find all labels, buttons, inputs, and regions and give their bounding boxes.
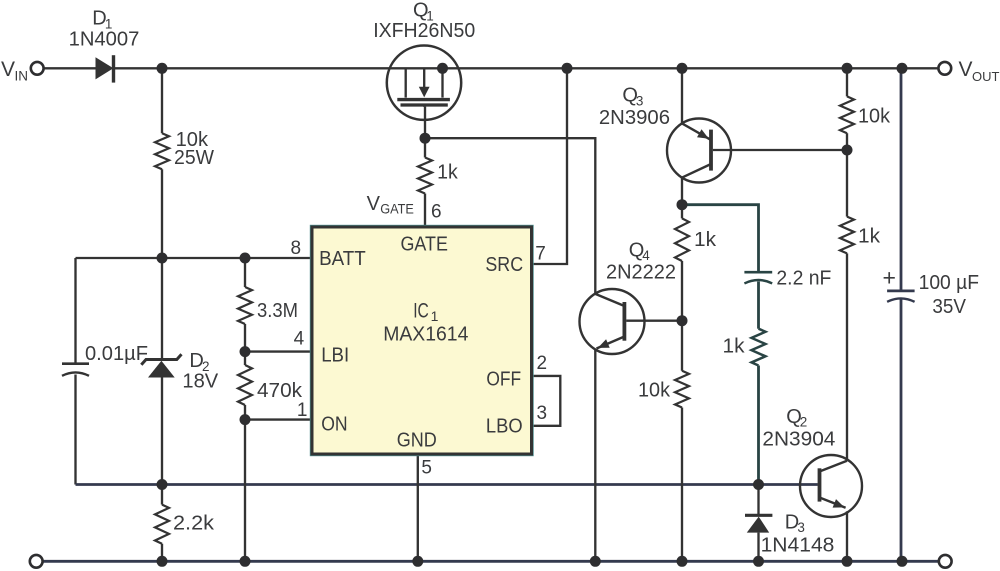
IC U1 MAX1614 body accent xyxy=(311,226,533,456)
junction BATT / left column xyxy=(157,253,168,264)
junction bottom rail / 100uF xyxy=(897,556,908,567)
junction bottom rail / 470k column xyxy=(240,556,251,567)
svg-text:LBI: LBI xyxy=(321,345,349,367)
wire gate node to Q4 collector xyxy=(425,138,595,294)
wire base net to 2.2k xyxy=(161,485,163,505)
wire base-drive net (0.01uF to Q2 base) xyxy=(76,483,818,486)
svg-text:2N2222: 2N2222 xyxy=(606,262,676,284)
svg-text:1N4148: 1N4148 xyxy=(761,535,835,557)
wire top rail V_IN to D1 anode xyxy=(44,67,96,69)
svg-text:V: V xyxy=(1,58,15,81)
svg-text:3: 3 xyxy=(537,403,548,424)
svg-text:IC: IC xyxy=(413,300,429,323)
transistor Q4 xyxy=(580,289,645,354)
wire D3 anode to bottom rail xyxy=(757,533,759,562)
capacitor 2.2nF xyxy=(744,271,772,274)
junction bottom rail / D3 xyxy=(753,556,764,567)
resistor 10k right xyxy=(840,96,854,133)
wire 2.2nF to 1k xyxy=(757,282,760,329)
wire left column 10k to BATT node xyxy=(161,169,163,258)
svg-text:MAX1614: MAX1614 xyxy=(383,323,468,345)
junction Q1 drain tap xyxy=(437,63,448,74)
wire Q4 base node to 10k xyxy=(681,321,683,371)
junction node B (Q3 collector) xyxy=(677,199,688,210)
capacitor 0.01uF xyxy=(62,362,89,365)
svg-text:SRC: SRC xyxy=(485,254,523,276)
IC U1 MAX1614 body xyxy=(312,227,532,454)
svg-text:2N3904: 2N3904 xyxy=(762,429,835,451)
wire 0.01uF bottom lead xyxy=(74,375,76,485)
wire pin1 ON stub xyxy=(245,418,312,420)
svg-text:GATE: GATE xyxy=(401,234,448,256)
wire Q1 source to gate resistor node xyxy=(424,107,426,139)
svg-text:V: V xyxy=(367,193,381,215)
resistor 1k Q3 collector xyxy=(675,218,689,261)
resistor 2.2k xyxy=(155,505,169,544)
wire Q3 base node to right 1k xyxy=(846,150,848,217)
junction Q3 base / right divider xyxy=(842,145,853,156)
diode D1 xyxy=(96,57,114,79)
resistor 3.3M xyxy=(238,287,252,324)
svg-text:IN: IN xyxy=(15,69,29,84)
wire 3.3M top lead xyxy=(244,258,246,287)
resistor 1k gate xyxy=(418,158,432,194)
wire Q3 collector to node B xyxy=(681,178,683,205)
terminal V_OUT xyxy=(938,62,951,75)
resistor 470k xyxy=(238,365,252,405)
junction top rail / 100uF xyxy=(897,63,908,74)
svg-text:GATE: GATE xyxy=(380,202,414,217)
svg-text:3.3M: 3.3M xyxy=(257,300,298,322)
wire BATT pin8 net xyxy=(76,257,313,259)
junction base net / D3 xyxy=(753,479,764,490)
svg-text:2N3906: 2N3906 xyxy=(599,107,670,129)
junction ON node xyxy=(240,414,251,425)
wire 2.2k to bottom rail xyxy=(161,544,163,562)
svg-text:1k: 1k xyxy=(858,226,881,248)
wire top rail to Q3 emitter xyxy=(681,68,683,123)
wire pin7 SRC to top rail xyxy=(532,68,568,264)
wire 1k to pin6 GATE xyxy=(424,194,426,228)
svg-text:100 µF: 100 µF xyxy=(919,272,979,294)
svg-text:0.01µF: 0.01µF xyxy=(85,343,148,365)
svg-text:OUT: OUT xyxy=(972,69,1000,84)
svg-text:35V: 35V xyxy=(932,296,966,318)
MOSFET Q1 xyxy=(387,45,461,119)
wire D2 anode to base net xyxy=(161,378,163,485)
svg-text:470k: 470k xyxy=(257,380,303,402)
transistor Q3 xyxy=(667,119,731,183)
svg-text:3: 3 xyxy=(797,520,805,535)
diode D3 xyxy=(745,514,772,517)
svg-text:+: + xyxy=(883,265,896,291)
svg-text:LBO: LBO xyxy=(486,415,523,437)
svg-text:25W: 25W xyxy=(174,147,214,169)
junction base net / left column xyxy=(157,479,168,490)
wire left column upper (node A to 10k) xyxy=(161,68,163,133)
wire ON node to bottom rail xyxy=(244,420,246,562)
svg-text:4: 4 xyxy=(294,329,305,350)
svg-text:1k: 1k xyxy=(723,336,746,358)
junction bottom rail / 2.2k xyxy=(157,556,168,567)
wire node B to 2.2nF branch xyxy=(682,205,759,273)
svg-text:2: 2 xyxy=(800,415,808,430)
terminal V_IN xyxy=(31,62,44,75)
resistor 1k right xyxy=(840,217,854,254)
svg-text:10k: 10k xyxy=(638,380,671,402)
junction bottom rail / GND pin xyxy=(412,556,423,567)
wire bottom rail xyxy=(43,560,938,563)
wire 10k to bottom rail xyxy=(681,408,683,562)
junction BATT / 3.3M xyxy=(240,253,251,264)
wire right 1k to Q2 collector xyxy=(846,253,848,460)
wire 1k to Q4 base node xyxy=(681,261,683,321)
junction gate node xyxy=(420,133,431,144)
transistor Q2 xyxy=(800,455,862,517)
svg-text:GND: GND xyxy=(397,430,437,452)
svg-text:6: 6 xyxy=(431,202,442,223)
wire top rail to 100uF xyxy=(900,68,903,291)
svg-text:V: V xyxy=(959,58,973,81)
svg-text:ON: ON xyxy=(321,413,347,435)
wire node B to 1k xyxy=(681,205,683,219)
wire Q2 emitter to bottom rail xyxy=(846,511,848,561)
svg-text:1: 1 xyxy=(297,400,308,421)
svg-text:18V: 18V xyxy=(182,371,218,393)
wire pin4 LBI stub xyxy=(245,350,312,352)
terminal bottom right xyxy=(939,555,952,568)
svg-text:1k: 1k xyxy=(437,162,459,184)
junction bottom rail / 10k Q4 xyxy=(677,556,688,567)
terminal bottom left xyxy=(30,555,43,568)
wire Q3 base net xyxy=(713,149,847,151)
wire Q4 base xyxy=(626,320,682,322)
svg-text:5: 5 xyxy=(421,457,432,478)
svg-text:2: 2 xyxy=(537,353,548,374)
svg-text:7: 7 xyxy=(535,243,546,264)
junction LBI node xyxy=(240,346,251,357)
zener diode D2 xyxy=(141,354,181,364)
svg-text:8: 8 xyxy=(291,238,302,259)
wire pin5 GND to bottom rail xyxy=(417,454,419,561)
junction top rail / Q3 emitter xyxy=(677,63,688,74)
junction top rail / 10k-25W xyxy=(157,63,168,74)
wire right 10k to Q3 base node xyxy=(846,133,848,150)
svg-text:10k: 10k xyxy=(858,106,891,128)
svg-text:OFF: OFF xyxy=(486,368,521,390)
junction Q4 base node xyxy=(677,315,688,326)
resistor 10k Q4 base xyxy=(675,371,689,408)
junction top rail / right 10k xyxy=(842,63,853,74)
svg-text:2.2 nF: 2.2 nF xyxy=(776,267,831,289)
junction bottom rail / Q4 emitter xyxy=(590,556,601,567)
junction bottom rail / Q2 emitter xyxy=(842,556,853,567)
svg-text:BATT: BATT xyxy=(319,248,366,270)
capacitor C_out 100uF xyxy=(887,289,915,292)
wire gate node to 1k xyxy=(424,138,426,157)
svg-text:2.2k: 2.2k xyxy=(173,513,215,535)
wire pin2 OFF to pin3 LBO loop xyxy=(532,376,561,426)
wire 470k top lead xyxy=(244,352,246,365)
wire BATT node to D2 cathode xyxy=(161,258,163,359)
wire 0.01uF top lead xyxy=(74,258,76,364)
wire Q4 emitter to bottom rail xyxy=(594,349,596,561)
wire top rail D1 cathode to V_OUT xyxy=(114,67,938,69)
junction top rail / SRC riser xyxy=(562,63,573,74)
wire 470k to ON node xyxy=(244,405,246,420)
svg-text:IXFH26N50: IXFH26N50 xyxy=(373,20,475,42)
svg-text:1: 1 xyxy=(431,308,439,324)
resistor 10k 25W xyxy=(155,133,169,169)
wire 3.3M to LBI node xyxy=(244,324,246,352)
wire base net node to D3 cathode xyxy=(757,485,759,516)
svg-text:1N4007: 1N4007 xyxy=(69,29,140,51)
wire top rail to right 10k xyxy=(846,68,848,96)
resistor 1k snubber xyxy=(752,329,766,366)
wire 100uF to bottom rail xyxy=(900,300,903,562)
svg-text:1k: 1k xyxy=(694,229,717,251)
wire 1k to base net node xyxy=(757,366,760,485)
